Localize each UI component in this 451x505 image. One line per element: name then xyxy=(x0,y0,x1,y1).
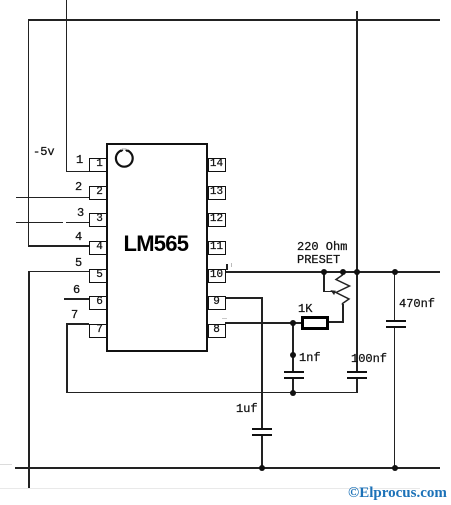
label 1nf xyxy=(299,351,321,365)
junction node 1nf to mid rail xyxy=(290,390,296,396)
junction node pin8/1K/1nf xyxy=(290,320,296,326)
watermark Elprocus xyxy=(348,485,447,502)
junction node pot top xyxy=(340,269,346,275)
wire vertical x293 (pin8 node to 1nf cap) xyxy=(292,322,294,371)
pin 8 box xyxy=(208,324,226,338)
wire pin1 horizontal xyxy=(66,171,90,173)
junction node 470nf ground xyxy=(392,465,398,471)
wire pin8 horizontal xyxy=(225,322,301,324)
pin number 3 label xyxy=(77,206,84,220)
pin 7 box xyxy=(89,324,107,338)
wire top +rail horizontal xyxy=(28,19,440,21)
wire vertical x394.5 (pin10 rail to 470nf) xyxy=(394,271,396,321)
wire pin2 horizontal xyxy=(16,197,89,199)
pin number 5 label xyxy=(75,256,82,270)
pin 14 box xyxy=(208,158,226,172)
label -5v supply xyxy=(33,145,55,159)
pin 13 box xyxy=(208,186,226,200)
wire vertical x357 (top rail down to 100nf) xyxy=(356,11,358,371)
wire preset bottom to 1K resistor xyxy=(328,321,344,323)
artifact dash near pin8 xyxy=(222,318,227,319)
pin number 1 label xyxy=(76,153,83,167)
wire pin3 horizontal segment a xyxy=(16,222,63,224)
capacitor C1 1nf top plate xyxy=(284,371,304,373)
pin number 7 label xyxy=(71,308,78,322)
label PRESET xyxy=(297,253,340,267)
potentiometer RV1 preset zigzag xyxy=(325,270,357,310)
wire pin7 horizontal xyxy=(66,323,89,325)
label 220 Ohm xyxy=(297,240,347,254)
capacitor C3 470nf bottom plate xyxy=(386,326,406,328)
wire pin10 rail horizontal xyxy=(225,271,440,273)
pin 12 box xyxy=(208,213,226,227)
wire pin3 horizontal segment b xyxy=(66,222,89,224)
wire vertical x66.5 (pin7 down) xyxy=(66,323,68,393)
resistor R1 1K box xyxy=(301,316,329,331)
junction node wiper tap xyxy=(321,269,327,275)
capacitor C3 470nf top plate xyxy=(386,320,406,322)
wire vertical x394.5 (470nf to ground rail) xyxy=(394,327,396,469)
junction node 1uf ground xyxy=(259,465,265,471)
label 1K xyxy=(298,302,312,316)
pin 9 box xyxy=(208,296,226,310)
pin 5 box xyxy=(89,269,107,283)
wire preset bottom vertical xyxy=(342,304,344,323)
pin number 2 label xyxy=(75,180,82,194)
pin 11 box xyxy=(208,241,226,255)
wire preset wiper vertical xyxy=(323,271,325,291)
pin 4 box xyxy=(89,241,107,255)
artifact tick gray near pin10 xyxy=(231,263,233,267)
IC label LM565 xyxy=(124,231,192,257)
junction node 470nf tap xyxy=(392,269,398,275)
wire preset wiper horizontal arrow xyxy=(323,291,335,293)
junction node x357 rail xyxy=(354,269,360,275)
pin 1 box xyxy=(89,158,107,172)
wire ground rail horizontal xyxy=(15,467,440,469)
IC U1 LM565 body xyxy=(106,143,208,352)
wire vertical x357 (100nf bottom to mid rail) xyxy=(356,378,358,393)
wire mid rail y392 horizontal xyxy=(66,392,357,394)
capacitor C4 1uf bottom plate xyxy=(252,434,272,436)
wire pin6 stub xyxy=(64,298,89,300)
wire left vertical x28 (top rail to pin4) xyxy=(28,19,30,246)
faint dash left edge xyxy=(0,464,12,465)
capacitor C4 1uf top plate xyxy=(252,428,272,430)
pin 2 box xyxy=(89,186,107,200)
pin 3 box xyxy=(89,213,107,227)
wire vertical x262 (1uf cap to ground) xyxy=(261,435,263,469)
pin 6 box xyxy=(89,296,107,310)
wire pin5 horizontal xyxy=(28,271,89,273)
artifact tick near pin10 xyxy=(226,264,228,270)
wire vertical x293 (1nf cap to mid rail) xyxy=(292,378,294,393)
wire vertical x262 (pin9 to 1uf cap) xyxy=(261,297,263,428)
capacitor C2 100nf bottom plate xyxy=(347,377,367,379)
IC pin1 indicator circle xyxy=(112,146,138,172)
faint page rule bottom xyxy=(0,488,420,490)
label 470nf xyxy=(399,297,435,311)
pin number 6 label xyxy=(73,283,80,297)
label 100nf xyxy=(351,352,387,366)
label 1uf xyxy=(236,402,258,416)
wire pin4 horizontal xyxy=(28,245,90,247)
wire vertical x66 (top to pin1) xyxy=(66,0,68,172)
wire vertical x28.8 (pin5 down to bottom) xyxy=(28,271,30,488)
wire pin9 horizontal xyxy=(225,297,262,299)
capacitor C1 1nf bottom plate xyxy=(284,377,304,379)
junction node on 1nf wire xyxy=(290,352,296,358)
capacitor C2 100nf top plate xyxy=(347,371,367,373)
pin number 4 label xyxy=(75,230,82,244)
pin 10 box xyxy=(208,269,226,283)
